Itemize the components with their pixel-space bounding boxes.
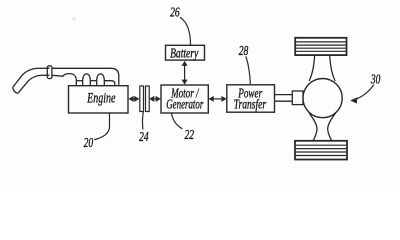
arrow motor - power transfer shaft line xyxy=(212,98,223,100)
wall segment 2 xyxy=(90,80,97,82)
coupler xyxy=(292,91,303,105)
leader for label 28 xyxy=(246,56,251,84)
exhaust flange xyxy=(47,66,52,79)
svg-text:Battery: Battery xyxy=(170,46,199,61)
leader for label 24 xyxy=(141,112,144,130)
exhaust pipe bend xyxy=(13,68,50,93)
svg-text:Engine: Engine xyxy=(86,90,115,106)
top wheel xyxy=(295,38,346,55)
svg-text:Generator: Generator xyxy=(166,98,204,112)
arrow clutch-motor shaft line xyxy=(152,98,157,100)
svg-text:Transfer: Transfer xyxy=(234,97,267,112)
bottom axle xyxy=(309,113,335,141)
exhaust pipe main run outer wall xyxy=(52,68,119,85)
top axle xyxy=(309,55,335,81)
svg-text:30: 30 xyxy=(370,73,381,87)
svg-text:24: 24 xyxy=(139,131,149,145)
svg-text:22: 22 xyxy=(184,129,194,143)
svg-text:20: 20 xyxy=(84,137,94,151)
leader for label 22 xyxy=(172,113,183,129)
arrow battery-motor shaft line xyxy=(184,64,186,81)
faint scan smudge xyxy=(72,17,75,20)
engine box xyxy=(69,86,129,113)
wall segment 3 and inner downpipe wall xyxy=(104,81,115,86)
motor/generator box xyxy=(161,85,208,113)
clutch plate right (24) xyxy=(146,86,150,112)
exhaust pipe lower wall and port 1 xyxy=(52,74,76,86)
wall segment 1 xyxy=(76,80,83,82)
arrowheads xyxy=(128,61,357,104)
svg-text:28: 28 xyxy=(239,44,249,58)
label 30 arrow curve xyxy=(354,85,374,101)
differential circle xyxy=(303,79,342,118)
exhaust port 3 xyxy=(97,74,105,86)
battery box xyxy=(166,45,205,60)
exhaust port 2 xyxy=(83,74,91,86)
power transfer box xyxy=(227,85,275,112)
shaft: power transfer to differential xyxy=(275,95,293,102)
svg-text:26: 26 xyxy=(170,6,180,20)
leader for label 26 xyxy=(180,17,191,45)
exhaust pipe muzzle opening xyxy=(13,87,18,93)
leader for label 20 xyxy=(94,113,110,140)
arrow engine-clutch shaft line xyxy=(132,98,136,100)
clutch plate left (24) xyxy=(140,86,144,112)
bottom wheel xyxy=(295,141,347,160)
